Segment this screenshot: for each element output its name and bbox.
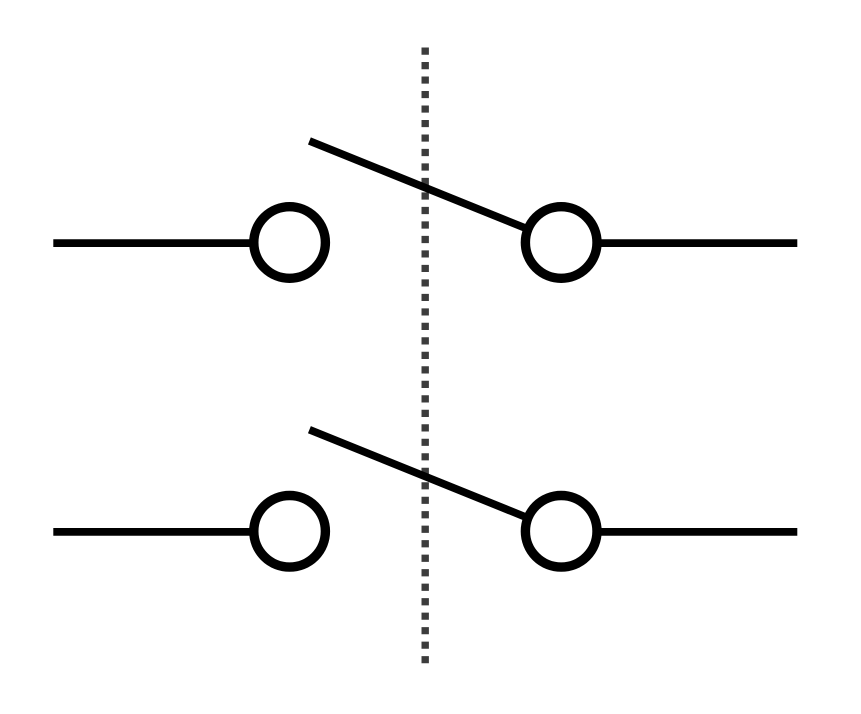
switch S1 pole A right contact circle: [525, 207, 597, 279]
switch S1 pole B left contact circle: [254, 496, 326, 568]
switch S1 pole A left contact circle: [254, 207, 326, 279]
switch S1 pole A left terminal wire: [53, 239, 251, 247]
switch S1 pole B right terminal wire: [598, 528, 798, 536]
mechanical linkage dotted line between poles of switch S1: [422, 48, 429, 664]
switch S1 pole A movable arm (open): [309, 141, 527, 229]
switch S1 pole A right terminal wire: [598, 239, 798, 247]
switch S1 pole B left terminal wire: [53, 528, 251, 536]
switch S1 pole B right contact circle: [525, 496, 597, 568]
switch S1 pole B movable arm (open): [309, 430, 527, 518]
